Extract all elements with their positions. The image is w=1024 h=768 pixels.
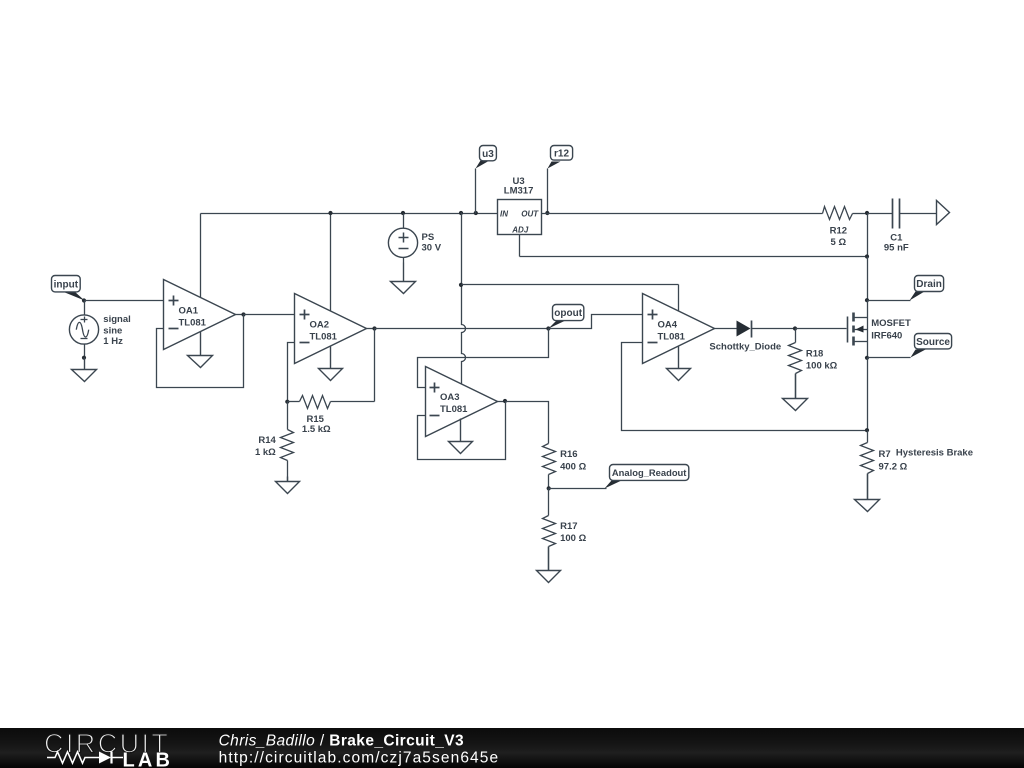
svg-text:R12: R12 [830, 226, 847, 237]
op-amp OA1 TL081 [164, 280, 236, 350]
resistor R15 [288, 396, 375, 409]
node rail-r12 flag [545, 211, 549, 215]
op-amp OA2 TL081 [295, 294, 367, 364]
node gate-R18 [793, 326, 797, 330]
svg-text:97.2 Ω: 97.2 Ω [879, 462, 908, 473]
diode Schottky_Diode [737, 321, 752, 338]
label OA1 [179, 306, 207, 329]
wire OA1 power stub [200, 214, 202, 298]
wire OA3 feedback [418, 402, 506, 460]
label R14 value [255, 435, 277, 458]
wire LM317 ADJ pin [519, 235, 521, 257]
net flag r12 [548, 146, 573, 214]
svg-text:TL081: TL081 [658, 332, 686, 343]
svg-text:LM317: LM317 [504, 186, 534, 197]
label Schottky_Diode [709, 342, 781, 353]
wire opout to OA4 + [549, 315, 643, 329]
wire ADJ to drain net [520, 256, 868, 258]
svg-text:1.5 kΩ: 1.5 kΩ [302, 424, 331, 435]
ground below R17 [537, 547, 561, 583]
svg-text:ADJ: ADJ [511, 226, 529, 235]
node rail-PS [401, 211, 405, 215]
svg-text:5 Ω: 5 Ω [831, 237, 847, 248]
wire OA1 output stub [236, 314, 244, 316]
node source-ground [82, 356, 86, 360]
svg-text:sine: sine [103, 326, 122, 337]
label MOSFET [871, 318, 911, 341]
label signal source [103, 314, 130, 347]
svg-text:R16: R16 [560, 449, 577, 460]
signal source sine 1 Hz [69, 301, 98, 358]
svg-text:TL081: TL081 [179, 318, 207, 329]
label OA3 [440, 392, 468, 415]
wire main vertical (rail to OA3 power) with hops [462, 213, 466, 384]
ground below R18 [783, 374, 808, 411]
ground below OA1 [188, 332, 213, 368]
svg-text:Analog_Readout: Analog_Readout [612, 467, 686, 478]
svg-text:MOSFET: MOSFET [871, 318, 911, 329]
resistor R12 [823, 207, 853, 220]
resistor R7 Hysteresis Brake [861, 431, 874, 500]
svg-text:OA1: OA1 [179, 306, 199, 317]
footer bar with CircuitLab logo and title [0, 728, 1024, 768]
node OA3 output [503, 399, 507, 403]
ground below OA3 [449, 419, 473, 454]
capacitor C1 [893, 199, 937, 229]
net flag opout [549, 305, 584, 329]
node R14-R15 junction [285, 400, 289, 404]
wire C1 node down to ADJ node [867, 214, 869, 257]
wire OA3 out to R16 [506, 402, 549, 444]
wire OA4 feedback [622, 343, 868, 431]
label R17 value [560, 521, 586, 544]
svg-text:Schottky_Diode: Schottky_Diode [709, 342, 781, 353]
ground below R14 [276, 477, 300, 494]
wire drain node to MOSFET drain [867, 301, 869, 318]
svg-text:http://circuitlab.com/czj7a5se: http://circuitlab.com/czj7a5sen645e [219, 750, 500, 767]
wire OA4 out to diode [715, 328, 737, 330]
node OA2 output [372, 326, 376, 330]
net flag input [52, 276, 85, 301]
node input [82, 298, 86, 302]
svg-text:30 V: 30 V [422, 242, 442, 253]
op-amp OA3 TL081 [426, 367, 498, 437]
svg-text:OUT: OUT [521, 209, 539, 218]
wire OA4 power stub [678, 285, 680, 312]
label R16 value [560, 449, 586, 472]
label R12 value [830, 226, 847, 248]
node ADJ-drain [865, 254, 869, 258]
node OA4-power branch [459, 283, 463, 287]
wire OA2 power stub [330, 214, 332, 312]
label R15 value [302, 414, 331, 435]
wire R12 to C1 node [853, 213, 868, 215]
resistor R18 [789, 329, 802, 399]
ground below R7 [855, 474, 880, 512]
wire OA4 power horizontal [462, 284, 679, 286]
node rail-OA2 power [328, 211, 332, 215]
svg-text:opout: opout [554, 308, 582, 319]
label PS value [422, 232, 442, 253]
label R18 value [806, 349, 838, 372]
wire Source flag lead [868, 357, 911, 359]
node Analog_Readout [547, 486, 551, 490]
node Drain [865, 298, 869, 302]
node rail-u3 flag [474, 211, 478, 215]
net flag Source [911, 334, 952, 358]
svg-text:signal: signal [103, 314, 130, 325]
node OA1 output [241, 312, 245, 316]
wire Analog_Readout lead [549, 488, 607, 490]
ground below OA2 [319, 347, 343, 381]
svg-text:100 Ω: 100 Ω [560, 533, 586, 544]
wire diode to R18 node [752, 328, 796, 330]
wire ADJ node down to Drain node [867, 257, 869, 301]
wire R18 node to MOSFET gate [796, 328, 847, 330]
svg-text:Hysteresis Brake: Hysteresis Brake [896, 447, 973, 458]
svg-text:OA2: OA2 [310, 320, 330, 331]
svg-text:R14: R14 [258, 435, 276, 446]
output port arrow [937, 201, 950, 225]
label U3 [504, 176, 534, 197]
svg-text:input: input [54, 279, 79, 290]
wire OA1 feedback [157, 315, 244, 388]
label R7 value [879, 447, 974, 472]
node Source [865, 356, 869, 360]
svg-text:400 Ω: 400 Ω [560, 461, 586, 472]
wire source node to R7 node [867, 358, 869, 431]
svg-text:Chris_Badillo / Brake_Circuit_: Chris_Badillo / Brake_Circuit_V3 [219, 732, 464, 749]
label OA4 [658, 320, 686, 343]
transistor MOSFET IRF640 [848, 313, 868, 346]
resistor R14 [281, 402, 294, 482]
node rail-main vertical [459, 211, 463, 215]
svg-text:Source: Source [916, 337, 950, 348]
svg-text:r12: r12 [554, 148, 569, 159]
wire OA3 output stub [498, 401, 506, 403]
svg-text:u3: u3 [482, 149, 494, 160]
wire OA2 - to feedback node [288, 343, 295, 402]
ground below PS [391, 263, 416, 294]
svg-text:R17: R17 [560, 521, 577, 532]
svg-text:TL081: TL081 [310, 332, 338, 343]
svg-text:LAB: LAB [123, 750, 174, 768]
svg-text:OA3: OA3 [440, 392, 460, 403]
wire OA1 out to OA2 + [244, 314, 295, 316]
wire OA2 out to opout node [375, 328, 549, 330]
voltage source PS 30 V [388, 214, 417, 263]
ground below signal source [72, 358, 97, 382]
svg-text:IRF640: IRF640 [871, 331, 902, 342]
wire input to OA1 + [85, 300, 164, 302]
svg-text:1 kΩ: 1 kΩ [255, 447, 276, 458]
svg-text:R7: R7 [879, 449, 891, 460]
label OA2 [310, 320, 338, 343]
net flag Drain [910, 276, 944, 301]
node R7-feedback [865, 428, 869, 432]
op-amp OA4 TL081 [643, 294, 715, 364]
svg-text:95 nF: 95 nF [884, 242, 909, 253]
net flag Analog_Readout [605, 465, 689, 489]
wire MOSFET source down [867, 342, 869, 358]
wire top supply rail left (OA1 power to LM317 IN) [201, 213, 498, 215]
resistor R17 [543, 489, 556, 571]
svg-text:1 Hz: 1 Hz [103, 336, 123, 347]
wire Drain flag lead [868, 300, 911, 302]
label C1 value [884, 233, 909, 254]
net flag u3 [476, 146, 497, 214]
wire LM317 OUT to R12 [542, 213, 823, 215]
wire R15 to OA2 output [374, 329, 376, 402]
voltage regulator U3 LM317 [498, 200, 542, 235]
node R12-C1-drain [865, 211, 869, 215]
wire opout node to OA3 + [418, 329, 549, 388]
svg-text:OA4: OA4 [658, 320, 678, 331]
svg-text:TL081: TL081 [440, 404, 468, 415]
wire OA2 output stub [367, 328, 375, 330]
wire node to C1 [868, 213, 893, 215]
svg-text:Drain: Drain [916, 279, 942, 290]
svg-text:100 kΩ: 100 kΩ [806, 361, 838, 372]
svg-text:R18: R18 [806, 349, 823, 360]
resistor R16 [543, 444, 556, 489]
ground below OA4 [667, 347, 691, 381]
node opout [546, 326, 550, 330]
svg-text:IN: IN [500, 209, 508, 218]
